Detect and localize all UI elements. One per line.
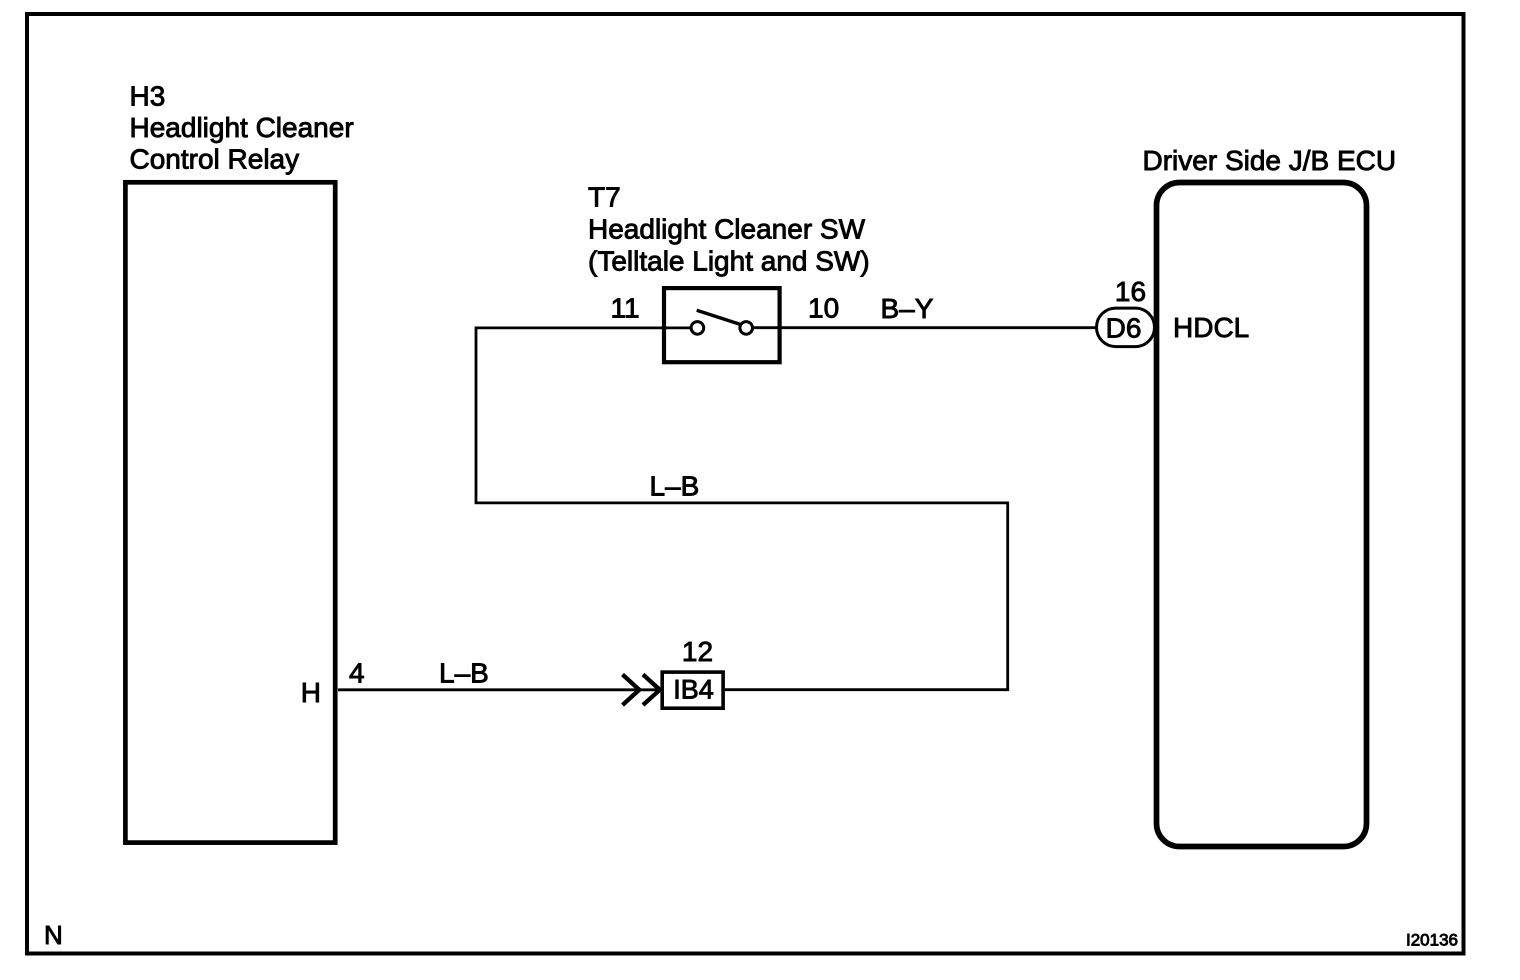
switch T7 label: [588, 182, 870, 277]
svg-text:L–B: L–B: [439, 658, 489, 689]
svg-text:D6: D6: [1106, 313, 1142, 344]
switch T7 right contact: [740, 322, 753, 335]
svg-text:(Telltale Light and SW): (Telltale Light and SW): [588, 246, 870, 277]
svg-text:N: N: [44, 920, 63, 950]
wire: relay pin 4 to IB4: [338, 688, 660, 691]
svg-text:B–Y: B–Y: [881, 293, 934, 324]
connector D6 oval: [1097, 308, 1155, 347]
svg-text:L–B: L–B: [650, 471, 700, 502]
wire: IB4 to right vertical: [725, 688, 1009, 691]
relay H3 label: [130, 80, 354, 174]
svg-text:4: 4: [349, 658, 365, 689]
svg-text:T7: T7: [588, 182, 621, 213]
ECU box: [1157, 183, 1367, 847]
splice arrow 1: [623, 675, 640, 706]
switch T7 left contact: [691, 322, 704, 335]
wire: L-B horizontal run: [475, 501, 1008, 504]
splice arrow 2: [643, 675, 660, 706]
svg-text:Driver Side J/B ECU: Driver Side J/B ECU: [1143, 145, 1397, 176]
relay H3 box: [125, 182, 335, 842]
switch T7 lever: [697, 310, 741, 324]
svg-text:H: H: [301, 677, 321, 708]
svg-text:Control Relay: Control Relay: [130, 143, 300, 174]
svg-text:I20136: I20136: [1406, 931, 1458, 950]
svg-text:IB4: IB4: [673, 675, 714, 705]
switch T7 box: [664, 288, 780, 362]
svg-text:Headlight Cleaner: Headlight Cleaner: [130, 112, 354, 143]
svg-text:Headlight Cleaner SW: Headlight Cleaner SW: [588, 213, 866, 244]
wire: vertical drop left: [475, 327, 478, 503]
svg-text:HDCL: HDCL: [1173, 312, 1249, 343]
wire: switch pin 10 to D6: [752, 326, 1097, 329]
connector IB4 box: [662, 672, 723, 708]
svg-text:11: 11: [611, 292, 640, 323]
wire: vertical drop right: [1006, 502, 1009, 690]
svg-text:10: 10: [808, 292, 839, 323]
wire: switch pin 11 to corner: [476, 326, 692, 329]
svg-text:16: 16: [1115, 276, 1146, 307]
svg-text:H3: H3: [130, 80, 166, 111]
svg-text:12: 12: [682, 636, 713, 667]
